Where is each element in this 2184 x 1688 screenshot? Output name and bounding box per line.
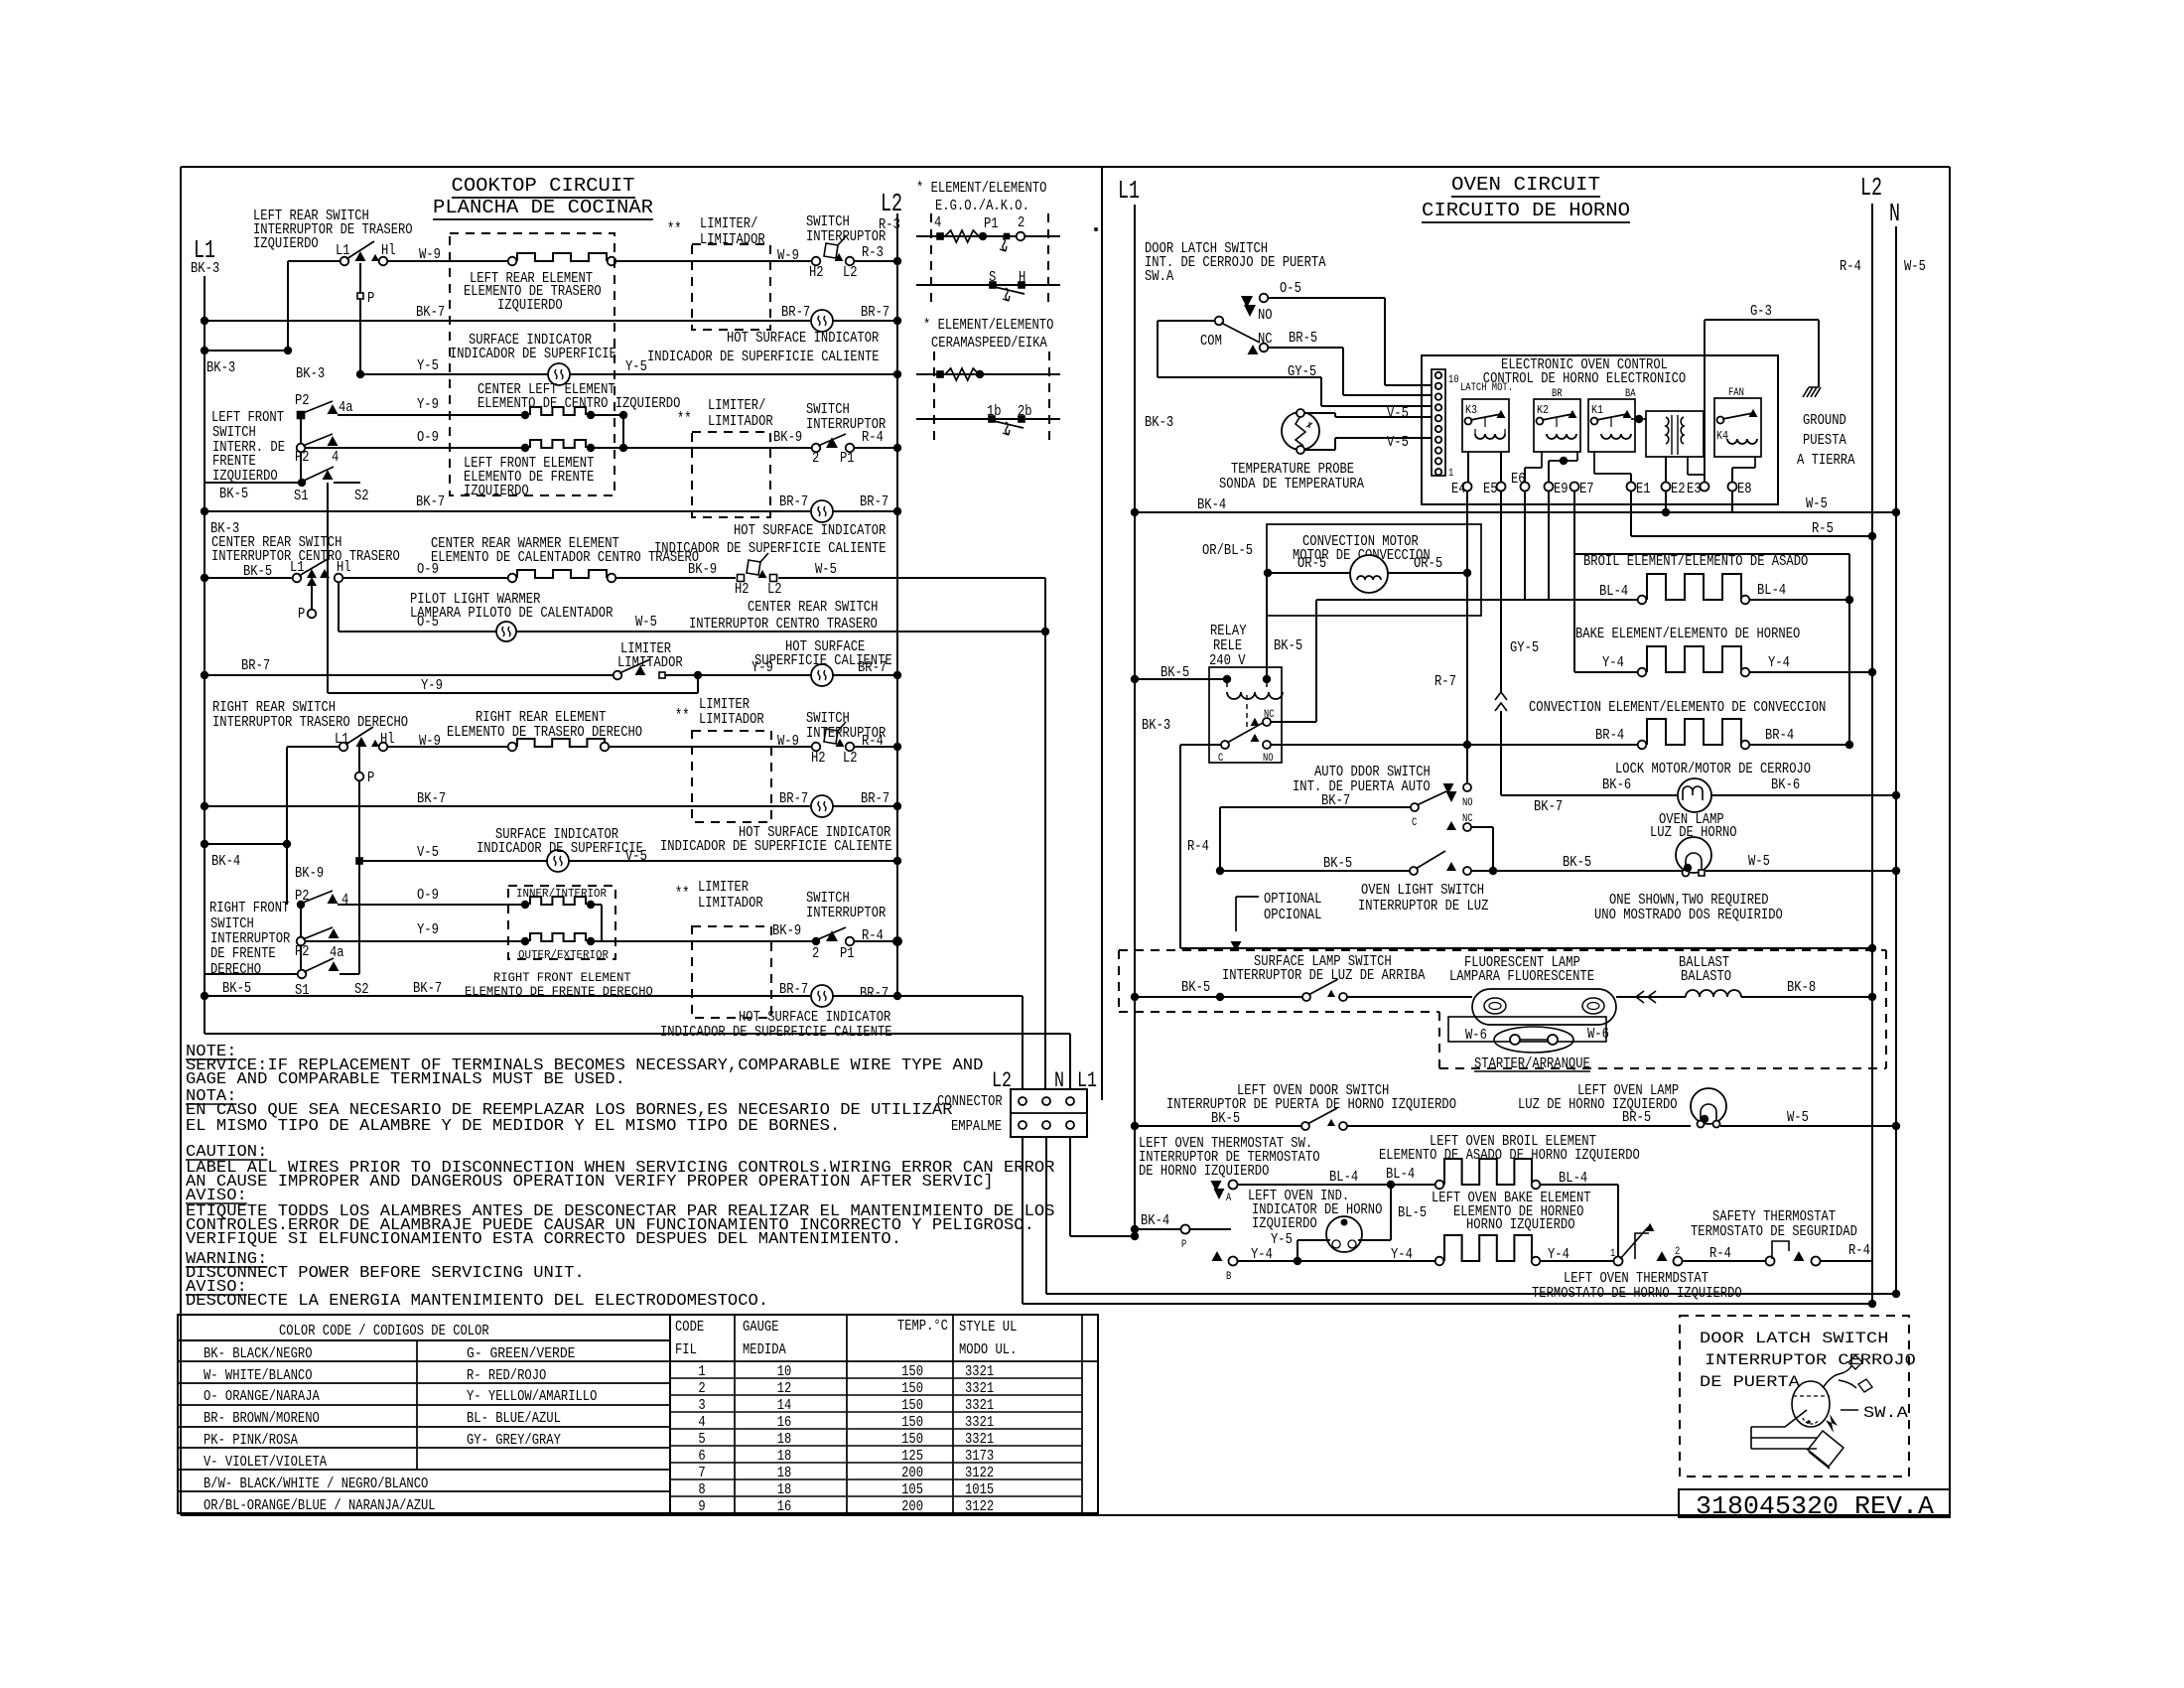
svg-text:V- VIOLET/VIOLETA: V- VIOLET/VIOLETA bbox=[204, 1455, 327, 1471]
switch interrupter row11 bbox=[812, 743, 821, 752]
switch EGO S/H bbox=[916, 284, 1060, 286]
svg-text:BK-9: BK-9 bbox=[772, 923, 801, 939]
svg-text:BK-3: BK-3 bbox=[1142, 718, 1170, 734]
wire BR-7 bus row10 bbox=[201, 671, 208, 679]
wire row1 to switch interrupter bbox=[615, 260, 812, 262]
wire L1 to relay coil bbox=[1131, 675, 1139, 683]
svg-text:BK-7: BK-7 bbox=[413, 981, 442, 997]
wire broil to thermostat 1 bbox=[1540, 1184, 1618, 1186]
relay 240V coil bbox=[1227, 692, 1283, 699]
svg-text:G-3: G-3 bbox=[1750, 304, 1772, 320]
wire gauge table bbox=[670, 1315, 1098, 1513]
svg-text:STYLE UL: STYLE UL bbox=[959, 1320, 1017, 1336]
switch door latch NC bbox=[1248, 345, 1259, 354]
switch SW.A pointer bbox=[1826, 1414, 1838, 1433]
svg-text:BR-7: BR-7 bbox=[781, 305, 810, 321]
svg-text:PLANCHA DE COCINAR: PLANCHA DE COCINAR bbox=[433, 197, 653, 218]
svg-text:RIGHT REAR SWITCH: RIGHT REAR SWITCH bbox=[212, 700, 336, 716]
door latch illustration bbox=[1792, 1381, 1830, 1427]
svg-text:ELEMENTO DE CENTRO IZQUIERDO: ELEMENTO DE CENTRO IZQUIERDO bbox=[478, 396, 680, 412]
wire OR-5 row bbox=[1264, 569, 1272, 577]
thermostat contact B bbox=[1212, 1251, 1223, 1261]
wire COM loop bbox=[1158, 320, 1215, 322]
svg-text:W-5: W-5 bbox=[1748, 854, 1770, 870]
svg-text:H2: H2 bbox=[811, 751, 826, 767]
svg-text:N: N bbox=[1889, 199, 1900, 228]
svg-text:L2: L2 bbox=[843, 265, 858, 281]
wire E6 drop bbox=[1524, 491, 1526, 600]
svg-text:SWITCH: SWITCH bbox=[806, 402, 850, 418]
switch S1 S2 left front bbox=[205, 482, 302, 484]
svg-text:GROUND: GROUND bbox=[1803, 413, 1846, 429]
svg-text:BK-7: BK-7 bbox=[417, 791, 446, 807]
svg-text:* ELEMENT/ELEMENTO: * ELEMENT/ELEMENTO bbox=[916, 181, 1046, 197]
svg-text:L2: L2 bbox=[767, 582, 782, 598]
svg-text:4: 4 bbox=[332, 450, 339, 466]
svg-text:BAKE ELEMENT/ELEMENTO DE HORNE: BAKE ELEMENT/ELEMENTO DE HORNEO bbox=[1575, 627, 1800, 642]
svg-text:18: 18 bbox=[777, 1432, 792, 1448]
element broil bbox=[1638, 596, 1647, 605]
svg-text:150: 150 bbox=[901, 1364, 923, 1380]
svg-text:FAN: FAN bbox=[1728, 387, 1744, 399]
EOC pins E4-E8 bbox=[1463, 483, 1472, 492]
svg-text:2: 2 bbox=[1018, 215, 1024, 231]
svg-text:BL-4: BL-4 bbox=[1386, 1167, 1415, 1183]
switch SW left-rear (L1/H1) bbox=[288, 260, 344, 262]
dashed box limiter 4 bbox=[692, 926, 771, 1018]
svg-text:PK- PINK/ROSA: PK- PINK/ROSA bbox=[204, 1433, 298, 1449]
pole link left front switch bbox=[300, 419, 302, 444]
section divider bbox=[1101, 167, 1103, 1100]
svg-text:INTERRUPTOR: INTERRUPTOR bbox=[210, 931, 291, 947]
wire L1 bus oven bbox=[1134, 205, 1136, 1236]
svg-text:DOOR LATCH SWITCH: DOOR LATCH SWITCH bbox=[1700, 1330, 1888, 1347]
svg-text:FIL: FIL bbox=[675, 1342, 697, 1358]
svg-text:AUTO DDOR SWITCH: AUTO DDOR SWITCH bbox=[1314, 765, 1431, 780]
dashed box limiter 2 bbox=[692, 432, 770, 517]
svg-text:BK-5: BK-5 bbox=[1563, 855, 1591, 871]
svg-text:RELE: RELE bbox=[1213, 638, 1242, 654]
svg-text:Hl: Hl bbox=[380, 732, 395, 748]
svg-text:L1: L1 bbox=[335, 732, 349, 748]
svg-text:P: P bbox=[367, 291, 374, 307]
svg-text:INTERRUPTOR DE LUZ DE ARRIBA: INTERRUPTOR DE LUZ DE ARRIBA bbox=[1222, 968, 1426, 984]
svg-text:IZQUIERDO: IZQUIERDO bbox=[253, 236, 319, 252]
svg-text:3122: 3122 bbox=[965, 1499, 994, 1515]
svg-text:K4: K4 bbox=[1716, 429, 1728, 443]
svg-text:105: 105 bbox=[901, 1482, 923, 1498]
svg-text:LIMITADOR: LIMITADOR bbox=[700, 232, 765, 248]
svg-text:RIGHT FRONT ELEMENT: RIGHT FRONT ELEMENT bbox=[493, 970, 631, 985]
svg-text:Y-9: Y-9 bbox=[417, 397, 439, 413]
svg-text:COM: COM bbox=[1200, 334, 1222, 350]
svg-text:MEDIDA: MEDIDA bbox=[743, 1342, 786, 1358]
svg-text:SWITCH: SWITCH bbox=[806, 214, 850, 230]
svg-text:BR: BR bbox=[1552, 388, 1563, 400]
svg-text:C: C bbox=[1412, 817, 1418, 829]
dashed box inner outer element bbox=[508, 886, 615, 959]
svg-text:W-5: W-5 bbox=[635, 615, 657, 631]
svg-text:CERAMASPEED/EIKA: CERAMASPEED/EIKA bbox=[931, 336, 1047, 352]
element inner bbox=[521, 901, 529, 909]
svg-text:2: 2 bbox=[698, 1381, 705, 1397]
svg-text:GY-5: GY-5 bbox=[1510, 640, 1539, 656]
svg-text:BR-4: BR-4 bbox=[1595, 728, 1624, 744]
svg-text:K2: K2 bbox=[1537, 403, 1549, 417]
svg-text:W-9: W-9 bbox=[777, 248, 799, 264]
svg-text:SWITCH: SWITCH bbox=[212, 425, 256, 441]
svg-text:SAFETY THERMOSTAT: SAFETY THERMOSTAT bbox=[1712, 1209, 1836, 1225]
wire bake right to L2 bus bbox=[1749, 671, 1872, 673]
wire E1 to R-5 bbox=[1630, 491, 1632, 536]
wire O-9 row15 bbox=[338, 904, 525, 906]
svg-text:125: 125 bbox=[901, 1449, 923, 1465]
switch left oven door bbox=[1301, 1122, 1309, 1130]
element left oven broil bbox=[1435, 1181, 1444, 1190]
svg-text:BK-3: BK-3 bbox=[206, 360, 235, 376]
wire G-3 ground bbox=[1704, 320, 1706, 483]
svg-text:L2: L2 bbox=[992, 1068, 1012, 1093]
riser P left-rear bbox=[359, 263, 361, 374]
svg-text:ELEMENTO DE ASADO DE HORNO IZQ: ELEMENTO DE ASADO DE HORNO IZQUIERDO bbox=[1379, 1148, 1640, 1164]
svg-text:S2: S2 bbox=[354, 489, 369, 504]
svg-text:UNO MOSTRADO DOS REQUIRIDO: UNO MOSTRADO DOS REQUIRIDO bbox=[1594, 908, 1783, 923]
wire R-4 return bus bbox=[1180, 947, 1872, 949]
svg-text:RELAY: RELAY bbox=[1210, 624, 1247, 639]
svg-text:INDICADOR DE SUPERFICIE: INDICADOR DE SUPERFICIE bbox=[477, 841, 643, 857]
svg-text:7: 7 bbox=[698, 1466, 705, 1481]
svg-text:LEFT FRONT: LEFT FRONT bbox=[211, 410, 284, 426]
chevron break R-7 bbox=[1495, 692, 1507, 711]
svg-text:W-5: W-5 bbox=[1787, 1110, 1809, 1126]
svg-text:W-9: W-9 bbox=[777, 734, 799, 750]
svg-text:INTERRUPTOR CERROJO: INTERRUPTOR CERROJO bbox=[1705, 1351, 1916, 1369]
wire lamp to N bus bbox=[1706, 870, 1896, 872]
wire BL-4 row A bbox=[1237, 1184, 1435, 1186]
svg-text:LIMITADOR: LIMITADOR bbox=[699, 712, 764, 728]
switch door latch NO bbox=[1241, 296, 1253, 308]
svg-text:**: ** bbox=[675, 707, 690, 726]
svg-text:NO: NO bbox=[1258, 308, 1273, 324]
wire bottom bus N return bbox=[1046, 1293, 1896, 1295]
svg-text:EMPALME: EMPALME bbox=[951, 1119, 1002, 1135]
svg-text:INDICADOR DE SUPERFICIE CALIEN: INDICADOR DE SUPERFICIE CALIENTE bbox=[660, 839, 892, 855]
wire BK-5 oven light row bbox=[1220, 870, 1414, 872]
svg-text:L1: L1 bbox=[1118, 176, 1140, 206]
svg-text:BK-9: BK-9 bbox=[773, 430, 802, 446]
svg-text:W-6: W-6 bbox=[1465, 1028, 1487, 1044]
svg-text:BR-7: BR-7 bbox=[779, 982, 808, 998]
svg-text:BR-5: BR-5 bbox=[1622, 1110, 1651, 1126]
svg-text:OVEN CIRCUIT: OVEN CIRCUIT bbox=[1451, 174, 1600, 196]
svg-text:LIMITER/: LIMITER/ bbox=[708, 398, 765, 414]
wire O-5 pilot row bbox=[339, 631, 496, 633]
svg-text:L1: L1 bbox=[336, 243, 350, 259]
svg-text:BK-7: BK-7 bbox=[416, 305, 445, 321]
svg-text:150: 150 bbox=[901, 1381, 923, 1397]
svg-text:AN CAUSE IMPROPER AND DANGEROU: AN CAUSE IMPROPER AND DANGEROUS OPERATIO… bbox=[186, 1173, 994, 1192]
svg-text:INTERRUPTOR DE LUZ: INTERRUPTOR DE LUZ bbox=[1358, 899, 1489, 914]
starter oval bbox=[1494, 1027, 1573, 1053]
wire broil right to bus bbox=[1749, 599, 1849, 601]
svg-text:CONNECTOR: CONNECTOR bbox=[937, 1094, 1003, 1110]
svg-text:BL- BLUE/AZUL: BL- BLUE/AZUL bbox=[467, 1411, 561, 1427]
svg-text:LIMITADOR: LIMITADOR bbox=[698, 896, 763, 912]
svg-text:3173: 3173 bbox=[965, 1449, 994, 1465]
svg-text:18: 18 bbox=[777, 1482, 792, 1498]
svg-text:S1: S1 bbox=[294, 489, 309, 504]
riser P right rear bbox=[358, 747, 360, 861]
wire R-4 thermostat row bbox=[1682, 1260, 1766, 1262]
svg-text:P1: P1 bbox=[840, 451, 855, 467]
svg-text:BR- BROWN/MORENO: BR- BROWN/MORENO bbox=[204, 1411, 320, 1427]
dashed box CERAMASPEED bbox=[933, 352, 935, 443]
svg-text:E7: E7 bbox=[1579, 482, 1594, 497]
svg-text:ONE SHOWN,TWO REQUIRED: ONE SHOWN,TWO REQUIRED bbox=[1609, 893, 1769, 909]
svg-text:BK-9: BK-9 bbox=[688, 562, 717, 578]
wire BK-7 bus row7 bbox=[201, 507, 208, 515]
wire W-9 row1 bbox=[388, 260, 512, 262]
svg-text:N: N bbox=[1054, 1068, 1064, 1093]
wire L1 pin to oven bus bbox=[1069, 1137, 1071, 1236]
riser S2 to Y-9 warm bus bbox=[327, 483, 329, 693]
svg-text:2: 2 bbox=[812, 946, 819, 962]
svg-text:BK-5: BK-5 bbox=[219, 487, 248, 502]
wire E4 riser to auto door NO bbox=[1466, 573, 1468, 782]
svg-text:3321: 3321 bbox=[965, 1398, 994, 1414]
wire BK-5 surface lamp row bbox=[1131, 993, 1139, 1001]
svg-text:DE HORNO IZQUIERDO: DE HORNO IZQUIERDO bbox=[1139, 1164, 1269, 1180]
element center-left lower bbox=[521, 444, 529, 452]
svg-text:HOT SURFACE INDICATOR: HOT SURFACE INDICATOR bbox=[739, 1010, 891, 1026]
dashed box EGO bbox=[930, 213, 932, 305]
part number box bbox=[1679, 1489, 1950, 1517]
wire OR-5 right bbox=[1387, 572, 1467, 574]
svg-text:OR-5: OR-5 bbox=[1297, 556, 1326, 572]
relay K3 bbox=[1462, 399, 1509, 452]
wire lamp to ballast arrows bbox=[1616, 996, 1686, 998]
svg-text:1015: 1015 bbox=[965, 1482, 994, 1498]
svg-text:SWITCH: SWITCH bbox=[210, 916, 254, 932]
svg-text:A TIERRA: A TIERRA bbox=[1797, 453, 1855, 469]
svg-text:BK-4: BK-4 bbox=[211, 854, 240, 870]
svg-text:R-4: R-4 bbox=[862, 430, 884, 446]
svg-text:P: P bbox=[298, 607, 305, 623]
element outer bbox=[521, 937, 529, 945]
svg-text:1: 1 bbox=[698, 1364, 705, 1380]
svg-text:B/W- BLACK/WHITE / NEGRO/BLANC: B/W- BLACK/WHITE / NEGRO/BLANCO bbox=[204, 1477, 428, 1492]
limiter switch row10 bbox=[614, 671, 622, 680]
svg-text:E5: E5 bbox=[1483, 482, 1498, 497]
svg-text:HORNO IZQUIERDO: HORNO IZQUIERDO bbox=[1466, 1217, 1575, 1233]
fluorescent lamp bbox=[1472, 989, 1616, 1025]
wire R-4 to L2 bus bottom bbox=[1820, 1260, 1872, 1262]
svg-text:BK-7: BK-7 bbox=[1534, 799, 1563, 815]
surface indicator lamp Y-5 bbox=[548, 363, 570, 385]
svg-text:FRENTE: FRENTE bbox=[212, 454, 256, 470]
svg-text:2: 2 bbox=[1675, 1246, 1680, 1258]
svg-text:SW.A: SW.A bbox=[1863, 1404, 1908, 1422]
wire E4 drop bbox=[1466, 491, 1468, 573]
svg-text:L1: L1 bbox=[1077, 1068, 1097, 1093]
EOC terminal strip bbox=[1432, 369, 1445, 476]
hot surface indicator row10 bbox=[811, 664, 833, 686]
svg-text:O-9: O-9 bbox=[417, 888, 439, 904]
svg-text:R- RED/ROJO: R- RED/ROJO bbox=[467, 1368, 546, 1384]
EOC box bbox=[1422, 355, 1778, 504]
svg-text:LIMITER/: LIMITER/ bbox=[700, 216, 757, 232]
wire BL-5 lamp right bbox=[1358, 1239, 1391, 1241]
svg-text:E6: E6 bbox=[1511, 472, 1526, 488]
svg-text:BR-7: BR-7 bbox=[779, 494, 808, 510]
svg-text:Y-5: Y-5 bbox=[1271, 1232, 1293, 1248]
svg-text:P1: P1 bbox=[840, 946, 855, 962]
wire O-9 row5 bbox=[306, 447, 525, 449]
wire Y-5 lamp left bbox=[1297, 1239, 1330, 1241]
wire BK-7 bus row12 bbox=[201, 802, 208, 810]
wire R-4 row16 bbox=[854, 940, 897, 942]
svg-text:E1: E1 bbox=[1636, 482, 1651, 497]
dashed box limiter 3 bbox=[692, 731, 771, 822]
ballast coil bbox=[1686, 990, 1741, 997]
svg-text:SUPERFICIE CALIENTE: SUPERFICIE CALIENTE bbox=[754, 653, 892, 669]
element convection bbox=[1638, 741, 1647, 750]
svg-text:200: 200 bbox=[901, 1466, 923, 1481]
wire R-4 row11 bbox=[854, 746, 897, 748]
svg-text:H: H bbox=[1019, 270, 1025, 286]
wire Y-4 row B bbox=[1237, 1260, 1435, 1262]
svg-text:BR-5: BR-5 bbox=[1289, 331, 1317, 347]
svg-text:2: 2 bbox=[812, 451, 819, 467]
convection motor bbox=[1350, 555, 1388, 593]
svg-text:BK-7: BK-7 bbox=[1321, 793, 1350, 809]
svg-text:K3: K3 bbox=[1465, 403, 1477, 417]
temperature probe bbox=[1282, 412, 1319, 450]
svg-text:318045320 REV.A: 318045320 REV.A bbox=[1696, 1491, 1934, 1521]
svg-text:150: 150 bbox=[901, 1432, 923, 1448]
element center-left upper bbox=[521, 411, 529, 419]
wire probe top to EOC bbox=[1304, 412, 1335, 414]
svg-text:LATCH MOT.: LATCH MOT. bbox=[1460, 382, 1513, 394]
svg-text:BK-5: BK-5 bbox=[222, 981, 251, 997]
svg-text:HOT SURFACE INDICATOR: HOT SURFACE INDICATOR bbox=[734, 523, 887, 539]
svg-text:10: 10 bbox=[1448, 374, 1459, 386]
svg-text:R-4: R-4 bbox=[1840, 259, 1861, 275]
svg-text:LAMPARA FLUORESCENTE: LAMPARA FLUORESCENTE bbox=[1449, 969, 1594, 985]
wire BK-3 riser to left rear switch bbox=[287, 261, 289, 351]
svg-text:OPTIONAL: OPTIONAL bbox=[1264, 892, 1321, 908]
dashed box door latch switch bbox=[1680, 1316, 1909, 1477]
svg-text:1b: 1b bbox=[987, 404, 1002, 420]
svg-text:BK-4: BK-4 bbox=[1197, 497, 1226, 513]
svg-text:NC: NC bbox=[1258, 332, 1273, 348]
wire W-5 center rear to N riser bbox=[778, 577, 1045, 579]
svg-text:**: ** bbox=[667, 220, 682, 239]
svg-text:A: A bbox=[1226, 1193, 1232, 1204]
svg-text:BK-6: BK-6 bbox=[1602, 777, 1631, 793]
riser auto door C to BK-5 row bbox=[1219, 807, 1221, 871]
wire Y-9 row16 bbox=[305, 940, 525, 942]
wire E5 riser below chevron bbox=[1500, 711, 1502, 795]
svg-text:16: 16 bbox=[777, 1499, 792, 1515]
svg-text:Y-5: Y-5 bbox=[417, 358, 439, 374]
svg-text:BK-4: BK-4 bbox=[1141, 1213, 1169, 1229]
svg-text:4a: 4a bbox=[339, 400, 353, 416]
svg-text:GY- GREY/GRAY: GY- GREY/GRAY bbox=[467, 1433, 561, 1449]
EOC internal wiring bbox=[1467, 452, 1469, 483]
svg-text:GAUGE: GAUGE bbox=[743, 1320, 779, 1336]
svg-text:O-9: O-9 bbox=[417, 430, 439, 446]
svg-text:200: 200 bbox=[901, 1499, 923, 1515]
svg-text:BK-3: BK-3 bbox=[1145, 415, 1173, 431]
svg-text:LUZ DE HORNO IZQUIERDO: LUZ DE HORNO IZQUIERDO bbox=[1518, 1097, 1678, 1113]
wire Y-9 row4 bbox=[338, 414, 525, 416]
svg-text:SWITCH: SWITCH bbox=[806, 891, 850, 907]
svg-text:BL-4: BL-4 bbox=[1599, 584, 1628, 600]
svg-text:W- WHITE/BLANCO: W- WHITE/BLANCO bbox=[204, 1368, 313, 1384]
relay K4 FAN bbox=[1714, 398, 1761, 457]
wire NC to broil (BL-4 feed) bbox=[1271, 721, 1316, 723]
relay 240V NO contact bbox=[1263, 741, 1271, 749]
svg-text:C: C bbox=[1218, 753, 1224, 765]
svg-text:DESCONECTE LA ENERGIA MANTENIM: DESCONECTE LA ENERGIA MANTENIMIENTO DEL … bbox=[186, 1292, 768, 1311]
element left oven bake bbox=[1435, 1257, 1444, 1266]
svg-text:R-5: R-5 bbox=[1812, 521, 1834, 537]
svg-text:W-9: W-9 bbox=[419, 247, 441, 263]
svg-text:BK-6: BK-6 bbox=[1771, 777, 1800, 793]
svg-text:IZQUIERDO: IZQUIERDO bbox=[464, 484, 529, 499]
wire L2 bus oven bbox=[1871, 204, 1873, 1304]
svg-text:Hl: Hl bbox=[381, 243, 396, 259]
svg-text:INTERRUPTOR: INTERRUPTOR bbox=[806, 906, 887, 921]
svg-text:SONDA DE TEMPERATURA: SONDA DE TEMPERATURA bbox=[1219, 477, 1364, 492]
svg-text:R-4: R-4 bbox=[1848, 1243, 1870, 1259]
svg-text:P: P bbox=[367, 771, 374, 786]
wire E2 drop bbox=[1665, 491, 1667, 512]
svg-text:P: P bbox=[1181, 1239, 1187, 1251]
svg-text:3122: 3122 bbox=[965, 1466, 994, 1481]
left oven lamp bbox=[1691, 1088, 1726, 1124]
wire R-3 to L2 bus bbox=[854, 260, 897, 262]
svg-text:E8: E8 bbox=[1737, 482, 1752, 497]
svg-text:W-9: W-9 bbox=[419, 734, 441, 750]
svg-text:L2: L2 bbox=[1860, 173, 1882, 203]
svg-text:6: 6 bbox=[698, 1449, 705, 1465]
transformer bbox=[1646, 411, 1704, 457]
svg-text:16: 16 bbox=[777, 1415, 792, 1431]
svg-text:SW.A: SW.A bbox=[1145, 269, 1173, 285]
dashed box left elements bbox=[450, 233, 614, 495]
svg-text:BR-7: BR-7 bbox=[861, 791, 889, 807]
svg-text:E4: E4 bbox=[1451, 482, 1466, 497]
svg-text:TEMP.°C: TEMP.°C bbox=[897, 1319, 948, 1335]
wire O-5 to EOC pin2 bbox=[1268, 297, 1385, 299]
svg-text:LIMITADOR: LIMITADOR bbox=[617, 655, 683, 671]
dashed box surface lamp circuit bbox=[1119, 949, 1886, 951]
resistor EGO row1 bbox=[916, 235, 1060, 237]
svg-text:18: 18 bbox=[777, 1449, 792, 1465]
switch 1b 2b bbox=[916, 418, 1060, 420]
switch auto door C bbox=[1411, 803, 1419, 811]
svg-text:LOCK MOTOR/MOTOR DE CERROJO: LOCK MOTOR/MOTOR DE CERROJO bbox=[1615, 762, 1811, 777]
svg-text:IZQUIERDO: IZQUIERDO bbox=[497, 298, 563, 314]
switch interrupter row16 bbox=[812, 937, 820, 945]
svg-text:BK-3: BK-3 bbox=[191, 261, 219, 277]
svg-text:BR-7: BR-7 bbox=[241, 658, 270, 674]
svg-text:10: 10 bbox=[777, 1364, 792, 1380]
wire convection right to bus bbox=[1749, 744, 1849, 746]
wire N pin to bottom bus bbox=[1045, 1137, 1047, 1294]
